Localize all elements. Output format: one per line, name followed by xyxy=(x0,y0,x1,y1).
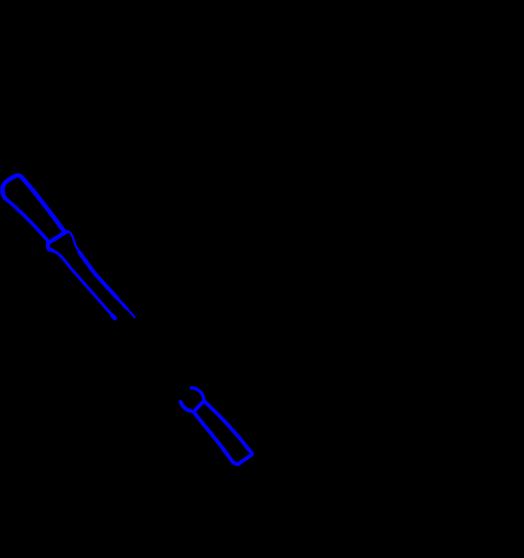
shaft right edge xyxy=(79,252,117,298)
shaft left edge tip blob xyxy=(112,315,115,318)
bat barrel left edge xyxy=(5,198,49,242)
shaft right edge tapered tip xyxy=(126,307,135,317)
ring left arc xyxy=(181,402,191,411)
shaft right edge mid taper xyxy=(116,297,127,309)
collar band top edge xyxy=(49,232,65,242)
collar crest spike xyxy=(66,231,69,233)
collar left U corner xyxy=(48,242,53,250)
ring right arc xyxy=(191,388,204,401)
bat barrel right edge and cap xyxy=(2,175,64,231)
handle grip xyxy=(194,401,252,464)
collar crest and thin descent xyxy=(64,232,80,253)
shaft left edge xyxy=(53,250,115,318)
